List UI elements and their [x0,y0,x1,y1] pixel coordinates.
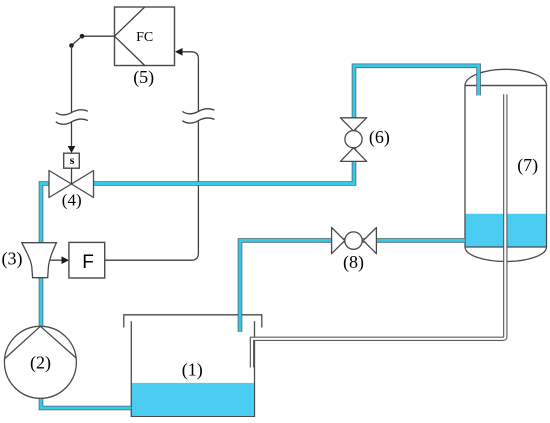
tank 7 top dome [465,69,547,85]
svg-text:(4): (4) [62,190,82,209]
break symbol right (two tildes) [182,109,214,114]
svg-text:(2): (2) [30,353,51,374]
svg-text:F: F [82,252,94,273]
svg-text:(6): (6) [369,127,390,148]
tank 1 lid rim [124,315,262,328]
F box (flow meter) [69,242,105,278]
svg-text:(7): (7) [517,155,538,176]
tank 7 bottom dome [465,247,547,262]
svg-text:(8): (8) [343,252,364,273]
switch blade [72,36,83,45]
wire: break down to solenoid arrow [71,122,73,148]
arrowhead into F box [62,256,70,264]
arrowhead into FC box right [175,48,183,56]
FC internal diagonals [115,7,145,36]
pipe: valve4 left, down through venturi and pump, to tank1 [41,184,131,409]
valve 6 (globe valve vertical) [340,118,366,162]
switch contact dot A [80,34,85,39]
s box of valve 4 [64,153,80,168]
svg-text:FC: FC [136,30,153,45]
arrowhead into s box [68,146,76,153]
wire: venturi to F meter arrow [49,259,63,261]
tank 7 body [465,86,547,248]
svg-text:(5): (5) [133,67,154,88]
pump 2 (circle with chords) [4,326,76,398]
tank 7 liquid [466,214,546,247]
wire: solenoid stem into valve 4 [71,168,73,184]
tank 1 liquid [132,383,254,416]
svg-text:(1): (1) [182,360,203,381]
pipe: tank7 side port through valve8 down into tank1 [240,240,465,332]
break symbol left (two tildes) [56,110,88,115]
tank 1 walls [131,321,254,416]
valve 4 (solenoid valve, bowtie) [49,171,94,198]
tank 7 walls [464,86,466,248]
wire: F meter to FC controller feedback [105,122,199,261]
valve 8 (globe valve horizontal) [332,228,377,254]
svg-text:s: s [70,153,75,167]
pipe: valve4 right to valve6 up to tank7 top [88,66,479,184]
switch contact dot B [69,43,74,48]
wire: FC left output to switch [82,35,115,37]
svg-text:(3): (3) [2,249,23,270]
tube: tank7 dip tube down and into tank1 [252,94,505,369]
venturi 3 (funnel) [22,243,57,278]
tank 7 shoulder lines [465,85,547,87]
wire: switch down to break [71,46,73,114]
FC box (flow controller 5) [115,7,175,66]
